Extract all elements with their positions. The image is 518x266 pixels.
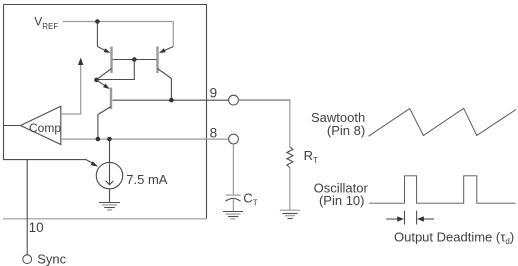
junction dot: VREF / Q1 emitter bbox=[95, 19, 100, 24]
transistor Q3 (PNP follower) bbox=[97, 80, 112, 115]
wire: Q2 collector down to pin 9 node bbox=[170, 79, 172, 101]
wire: VREF rail bbox=[63, 21, 173, 23]
wire: rail down to current source bbox=[109, 139, 111, 163]
wire: base tie down to node A bbox=[97, 60, 135, 80]
arrowhead into current source bbox=[91, 161, 99, 167]
transistor Q1 (left PNP of mirror) bbox=[97, 47, 112, 80]
svg-text:CT: CT bbox=[243, 190, 257, 207]
wire: Q3 collector down to CT rail bbox=[97, 115, 99, 140]
svg-text:9: 9 bbox=[210, 86, 218, 101]
node A junction dot (Q1 collector / bases / Q3 emitter) bbox=[94, 78, 99, 83]
wire: base tie Q1-Q2 bbox=[113, 59, 157, 61]
resistor RT bbox=[287, 147, 293, 168]
svg-text:(Pin 8): (Pin 8) bbox=[327, 123, 365, 138]
svg-text:(Pin 10): (Pin 10) bbox=[319, 193, 365, 208]
wire: pin 9 to RT bbox=[238, 99, 290, 101]
ground (current source) bbox=[99, 203, 120, 210]
svg-text:VREF: VREF bbox=[34, 15, 58, 31]
IC boundary box: bottom edge bbox=[3, 218, 207, 220]
junction dot: current source on rail bbox=[107, 137, 112, 142]
wire: pin 9 line (Q3 base to terminal) bbox=[113, 99, 229, 101]
current source I1 (7.5 mA) bbox=[96, 162, 122, 188]
ground (RT) bbox=[280, 210, 300, 218]
wire: CT rail (comparator lower input to pin 8) bbox=[61, 138, 229, 140]
ground (CT) bbox=[223, 212, 243, 219]
svg-text:10: 10 bbox=[29, 220, 44, 235]
capacitor CT bbox=[225, 195, 240, 211]
wire: pin 10 (sync) bbox=[26, 160, 28, 255]
svg-text:RT: RT bbox=[304, 148, 318, 165]
wire: pin 8 down to CT bbox=[232, 144, 234, 195]
wire: Q1 emitter drop bbox=[96, 22, 98, 47]
svg-text:Sync: Sync bbox=[37, 252, 66, 266]
deadtime tick marks bbox=[404, 211, 406, 225]
wire: Q2 emitter drop bbox=[172, 22, 174, 47]
wire: comparator upper input with up arrow bbox=[61, 63, 81, 114]
wire: current source to ground bbox=[109, 189, 111, 203]
svg-text:7.5 mA: 7.5 mA bbox=[126, 172, 168, 187]
waveform: oscillator pulses bbox=[369, 176, 515, 203]
svg-text:8: 8 bbox=[210, 126, 218, 141]
wire: comparator output to apex bbox=[4, 125, 21, 127]
wire: comparator output feedback (left edge, down, right, into current source) bbox=[4, 5, 94, 164]
svg-text:Output Deadtime (τd): Output Deadtime (τd) bbox=[394, 229, 514, 246]
deadtime arrows bbox=[386, 216, 434, 221]
wire: RT to ground bbox=[289, 168, 291, 211]
junction dot: base tie bbox=[132, 57, 137, 62]
IC boundary box: top and right edges bbox=[4, 5, 207, 219]
pin 9 terminal circle bbox=[229, 95, 239, 105]
sync terminal circle bbox=[23, 255, 32, 264]
arrowhead up bbox=[78, 58, 83, 66]
junction dot: pin 9 / Q2 collector / Q3 base bbox=[169, 98, 174, 103]
waveform: sawtooth bbox=[369, 108, 517, 136]
junction dot: Q3 collector on rail bbox=[96, 137, 101, 142]
pin 8 terminal circle bbox=[229, 134, 239, 144]
svg-text:Comp: Comp bbox=[29, 121, 61, 135]
transistor Q2 (right PNP of mirror) bbox=[158, 47, 174, 79]
comparator U1 bbox=[21, 106, 62, 144]
